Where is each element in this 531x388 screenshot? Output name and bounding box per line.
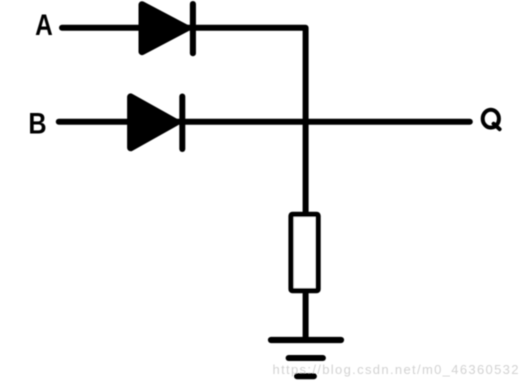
svg-text:B: B <box>28 106 46 140</box>
svg-text:A: A <box>35 8 53 42</box>
